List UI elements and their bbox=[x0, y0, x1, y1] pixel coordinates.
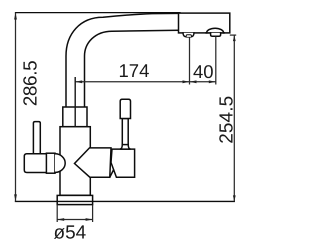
aerator dome base line bbox=[206, 32, 224, 34]
arrow 174 left bbox=[75, 80, 82, 83]
extension line neck center bbox=[74, 77, 76, 127]
arrow 254.5 top bbox=[233, 35, 236, 41]
body column bbox=[60, 127, 90, 196]
right lever rod flare foot bbox=[120, 144, 131, 149]
dimension line 174/40 horizontal bbox=[75, 81, 216, 83]
left handle cylinder bbox=[24, 154, 47, 173]
right lever rod bbox=[122, 119, 128, 145]
left handle boss bulge bbox=[55, 154, 65, 173]
spout end section bbox=[179, 13, 230, 33]
extension line aerator center bbox=[215, 37, 217, 85]
extension line flange right bbox=[92, 205, 94, 222]
extension line diverter center bbox=[189, 37, 191, 84]
svg-text:ø54: ø54 bbox=[54, 223, 87, 244]
collar nut under neck bbox=[63, 107, 87, 127]
svg-text:254.5: 254.5 bbox=[216, 96, 237, 144]
arrow 40 right bbox=[209, 80, 216, 83]
extension line flange left bbox=[56, 205, 58, 222]
svg-text:286.5: 286.5 bbox=[20, 60, 41, 106]
right handle block chamfer inner line bbox=[110, 170, 114, 177]
wire: top extension line for 286.5 bbox=[16, 12, 181, 14]
left handle lever rod bbox=[33, 122, 40, 155]
countertop line / bottom extension bbox=[16, 200, 235, 202]
aerator dome bbox=[207, 28, 224, 33]
spout neck bend outer curve bbox=[66, 13, 179, 107]
dimension line 286.5 vertical bbox=[15, 13, 17, 202]
arrow 254.5 bottom bbox=[233, 195, 236, 201]
valve cone pentagon bbox=[75, 148, 112, 177]
dimension line 254.5 vertical bbox=[233, 35, 235, 201]
svg-text:40: 40 bbox=[193, 61, 214, 82]
arrow dia54 left bbox=[57, 218, 64, 221]
aerator outlet tab bbox=[211, 33, 221, 36]
base flange bbox=[57, 195, 92, 204]
right handle block with chamfer bbox=[111, 149, 135, 177]
arrow 286.5 top bbox=[14, 13, 17, 20]
spout neck bend inner curve bbox=[85, 30, 179, 107]
arrow dia54 right bbox=[86, 218, 93, 221]
arrow 40 left bbox=[190, 80, 197, 83]
bump under spout (diverter) bbox=[183, 33, 194, 37]
arrow 174 right bbox=[183, 80, 190, 83]
dimension line diameter 54 bbox=[57, 219, 92, 221]
svg-text:174: 174 bbox=[119, 60, 150, 81]
diverter bump inner notch bbox=[186, 35, 191, 37]
arrow 286.5 bottom bbox=[14, 194, 17, 201]
right lever cap bbox=[120, 99, 130, 118]
extension line right for 254.5 top bbox=[230, 34, 236, 36]
left handle ring bbox=[46, 153, 55, 173]
